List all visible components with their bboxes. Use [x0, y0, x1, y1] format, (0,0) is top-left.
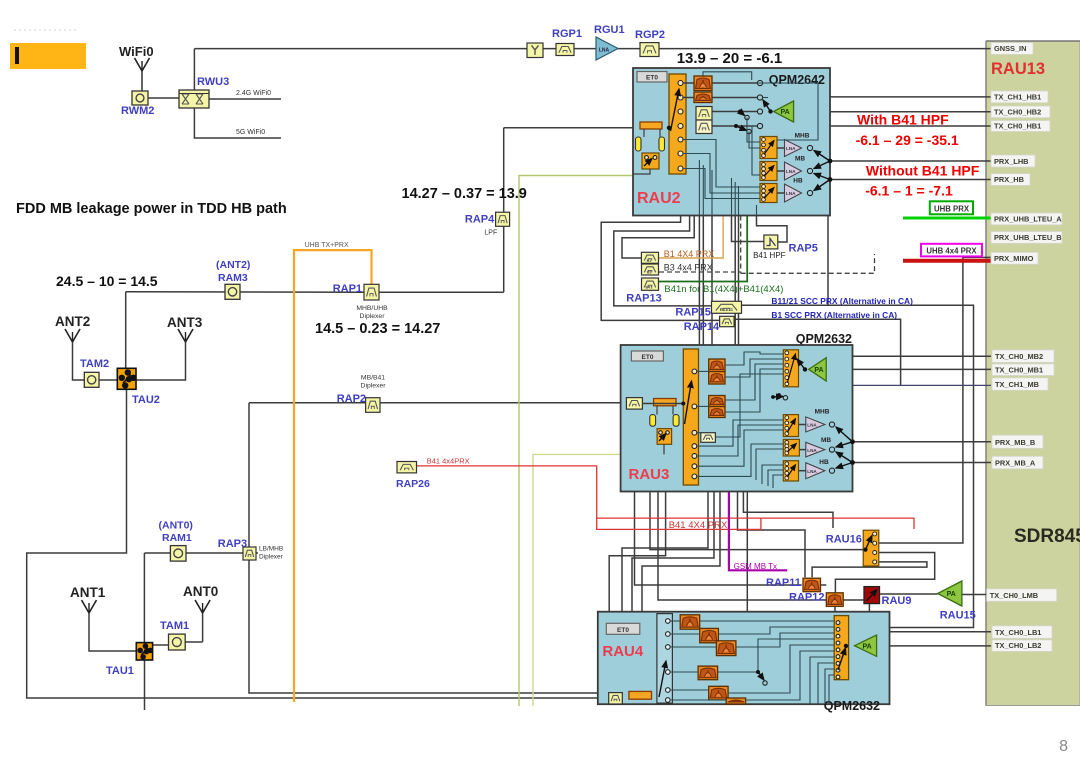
svg-text:QPM2632: QPM2632 — [824, 699, 880, 713]
svg-text:TX_CH0_HB2: TX_CH0_HB2 — [994, 108, 1041, 117]
svg-text:PRX_UHB_LTEU_B: PRX_UHB_LTEU_B — [994, 233, 1062, 242]
svg-text:14.5 – 0.23 = 14.27: 14.5 – 0.23 = 14.27 — [315, 321, 440, 337]
svg-text:HB: HB — [793, 178, 803, 185]
svg-text:RGP2: RGP2 — [635, 29, 665, 41]
svg-text:RAU3: RAU3 — [629, 466, 670, 483]
svg-text:QPM2642: QPM2642 — [769, 73, 825, 87]
svg-text:PRX_UHB_LTEU_A: PRX_UHB_LTEU_A — [994, 215, 1062, 224]
svg-text:(ANT0): (ANT0) — [159, 520, 193, 532]
svg-text:WiFi0: WiFi0 — [119, 44, 154, 59]
svg-text:PRX_MB_B: PRX_MB_B — [995, 438, 1035, 447]
svg-text:B11/21: B11/21 — [720, 307, 734, 312]
svg-text:QPM2632: QPM2632 — [796, 332, 852, 346]
svg-text:LPF: LPF — [484, 230, 497, 237]
svg-text:5G WiFi0: 5G WiFi0 — [236, 129, 265, 136]
svg-text:TX_CH1_MB: TX_CH1_MB — [995, 380, 1039, 389]
svg-text:RAU16: RAU16 — [826, 534, 862, 546]
svg-text:RAP4: RAP4 — [465, 214, 495, 226]
svg-text:Diplexer: Diplexer — [259, 554, 284, 561]
svg-text:ANT3: ANT3 — [167, 315, 203, 330]
svg-text:RAP2: RAP2 — [337, 393, 366, 405]
svg-text:B41n for B1(4X4)+B41(4X4): B41n for B1(4X4)+B41(4X4) — [664, 284, 783, 295]
svg-text:-6.1 – 1 = -7.1: -6.1 – 1 = -7.1 — [865, 182, 953, 198]
svg-text:LNA: LNA — [807, 469, 817, 474]
svg-text:GNSS_IN: GNSS_IN — [994, 44, 1026, 53]
svg-text:TAU1: TAU1 — [106, 665, 134, 677]
svg-text:RWM2: RWM2 — [121, 105, 154, 117]
svg-text:RAM3: RAM3 — [218, 272, 248, 284]
svg-text:LNA: LNA — [807, 448, 817, 453]
svg-text:LB/MHB: LB/MHB — [259, 546, 283, 553]
svg-text:RGU1: RGU1 — [594, 24, 625, 36]
svg-text:MB: MB — [795, 156, 805, 163]
svg-text:HB: HB — [819, 459, 829, 466]
svg-text:14.27 – 0.37 = 13.9: 14.27 – 0.37 = 13.9 — [402, 186, 527, 202]
svg-text:Without B41 HPF: Without B41 HPF — [866, 162, 980, 178]
svg-text:13.9 – 20 = -6.1: 13.9 – 20 = -6.1 — [677, 50, 783, 67]
svg-text:TX_CH0_MB2: TX_CH0_MB2 — [995, 352, 1043, 361]
svg-text:TX_CH0_MB1: TX_CH0_MB1 — [995, 365, 1043, 374]
svg-text:TAM1: TAM1 — [160, 620, 189, 632]
svg-text:PA: PA — [814, 367, 823, 374]
svg-text:RAP3: RAP3 — [218, 538, 247, 550]
svg-text:MHB: MHB — [795, 133, 810, 140]
svg-text:RAP15: RAP15 — [675, 307, 710, 319]
svg-text:2.4G WiFi0: 2.4G WiFi0 — [236, 90, 271, 97]
svg-text:B41 4x4PRX: B41 4x4PRX — [427, 457, 470, 466]
svg-text:MB: MB — [821, 437, 831, 444]
svg-text:SDR845: SDR845 — [1014, 526, 1080, 547]
svg-text:B11/21 SCC PRX (Alternative in: B11/21 SCC PRX (Alternative in CA) — [771, 296, 913, 306]
svg-text:ANT1: ANT1 — [70, 585, 106, 600]
svg-text:B41 4X4 PRX: B41 4X4 PRX — [669, 520, 728, 531]
svg-text:PA: PA — [862, 643, 871, 650]
svg-text:ET0: ET0 — [642, 354, 654, 361]
svg-text:ANT2: ANT2 — [55, 314, 90, 329]
svg-text:LNA: LNA — [786, 146, 796, 151]
svg-text:(ANT2): (ANT2) — [216, 259, 250, 271]
svg-text:B41: B41 — [646, 286, 653, 290]
svg-text:MB/B41: MB/B41 — [361, 375, 385, 382]
svg-text:PRX_MB_A: PRX_MB_A — [995, 459, 1036, 468]
svg-text:PA: PA — [947, 591, 956, 598]
svg-text:B3: B3 — [647, 271, 652, 275]
svg-text:RAP13: RAP13 — [626, 293, 661, 305]
svg-text:MHB/UHB: MHB/UHB — [356, 305, 388, 312]
svg-text:RWU3: RWU3 — [197, 76, 229, 88]
svg-text:ANT0: ANT0 — [183, 584, 218, 599]
svg-text:ET0: ET0 — [617, 627, 629, 634]
svg-text:PRX_MIMO: PRX_MIMO — [994, 254, 1034, 263]
svg-text:MHB: MHB — [815, 409, 830, 416]
svg-text:LNA: LNA — [786, 191, 796, 196]
svg-text:8: 8 — [1059, 738, 1068, 755]
svg-text:TX_CH0_LMB: TX_CH0_LMB — [990, 591, 1038, 600]
svg-text:TAU2: TAU2 — [132, 394, 160, 406]
svg-text:RAU9: RAU9 — [882, 595, 912, 607]
svg-text:UHB TX+PRX: UHB TX+PRX — [305, 242, 349, 249]
svg-text:UHB 4x4 PRX: UHB 4x4 PRX — [926, 247, 977, 256]
svg-text:TX_CH0_LB2: TX_CH0_LB2 — [995, 641, 1041, 650]
svg-text:LNA: LNA — [599, 48, 610, 54]
svg-text:TX_CH0_HB1: TX_CH0_HB1 — [994, 121, 1041, 130]
svg-text:RAP11: RAP11 — [766, 577, 801, 589]
svg-text:ET0: ET0 — [646, 75, 658, 82]
svg-text:Diplexer: Diplexer — [360, 313, 386, 320]
svg-text:TX_CH1_HB1: TX_CH1_HB1 — [994, 93, 1041, 102]
svg-text:RAP14: RAP14 — [684, 321, 720, 333]
svg-text:Diplexer: Diplexer — [361, 383, 387, 390]
svg-text:UHB PRX: UHB PRX — [934, 204, 970, 213]
svg-text:RAP1: RAP1 — [333, 283, 362, 295]
svg-text:RGP1: RGP1 — [552, 28, 582, 40]
svg-text:RAP12: RAP12 — [789, 592, 824, 604]
svg-text:FDD MB leakage power in TDD HB: FDD MB leakage power in TDD HB path — [16, 201, 287, 217]
svg-text:B41 HPF: B41 HPF — [753, 251, 786, 260]
svg-text:B1: B1 — [647, 259, 652, 263]
svg-text:PA: PA — [780, 109, 789, 116]
svg-text:B1 SCC PRX (Alternative in CA): B1 SCC PRX (Alternative in CA) — [771, 310, 897, 320]
svg-text:RAM1: RAM1 — [162, 532, 192, 544]
svg-text:With B41 HPF: With B41 HPF — [857, 111, 949, 127]
svg-text:PRX_HB: PRX_HB — [994, 175, 1024, 184]
svg-text:RAU4: RAU4 — [602, 643, 643, 660]
svg-text:B1 4X4 PRX: B1 4X4 PRX — [664, 249, 715, 259]
svg-text:RAP26: RAP26 — [396, 478, 430, 490]
svg-text:RAU13: RAU13 — [991, 60, 1045, 78]
svg-text:RAP5: RAP5 — [789, 243, 818, 255]
svg-text:LNA: LNA — [786, 169, 796, 174]
svg-text:TX_CH0_LB1: TX_CH0_LB1 — [995, 628, 1041, 637]
svg-text:24.5 – 10 = 14.5: 24.5 – 10 = 14.5 — [56, 273, 158, 289]
svg-text:PRX_LHB: PRX_LHB — [994, 157, 1029, 166]
svg-text:B3 4x4 PRX: B3 4x4 PRX — [664, 262, 713, 272]
svg-text:RAU2: RAU2 — [637, 190, 681, 207]
svg-text:GSM MB Tx: GSM MB Tx — [734, 562, 777, 571]
svg-text:TAM2: TAM2 — [80, 358, 109, 370]
svg-text:LNA: LNA — [807, 423, 817, 428]
svg-text:-6.1 – 29 = -35.1: -6.1 – 29 = -35.1 — [856, 132, 959, 148]
svg-text:RAU15: RAU15 — [940, 610, 976, 622]
